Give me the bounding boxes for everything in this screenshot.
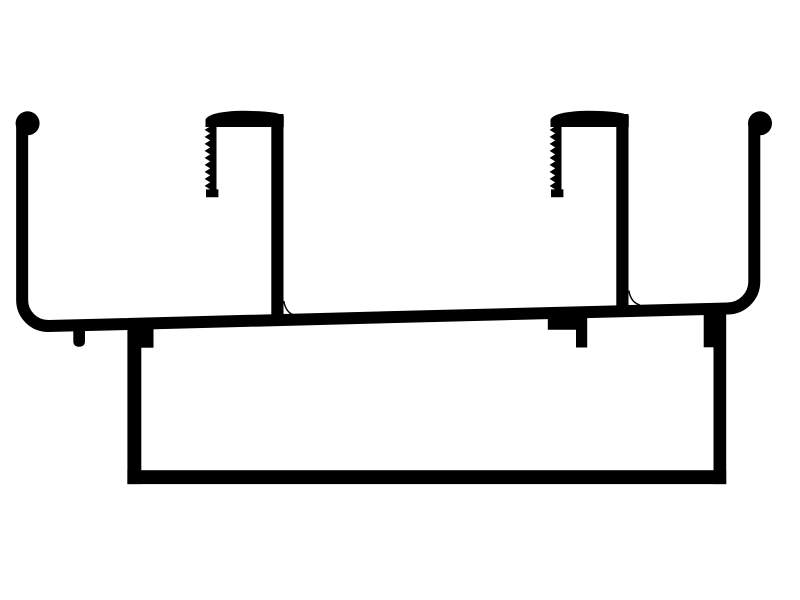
hook 1 serrated strip — [205, 126, 219, 197]
hook 2 serrated strip — [550, 126, 564, 197]
fillet hairline at hook 1 bar junction — [284, 301, 295, 315]
box left inner notch — [140, 322, 154, 348]
hook 1 (left serrated snap leg) — [205, 111, 284, 324]
right end bead — [748, 111, 772, 135]
hook 1 bar — [271, 114, 283, 324]
box right wall — [714, 310, 727, 484]
box right inner notch — [704, 310, 716, 347]
box left wall — [127, 319, 141, 485]
hook 2 cap — [551, 111, 629, 127]
left end bead — [16, 111, 40, 135]
outer profile wall (left wall, bottom slant web, right wall) — [22, 123, 754, 326]
drip tab under left bottom flange — [73, 328, 85, 347]
fillet hairline at hook 2 bar junction — [629, 291, 640, 306]
hook 1 cap — [206, 111, 284, 127]
middle step notch under hook 2 strip — [548, 314, 587, 348]
hook 2 (right serrated snap leg) — [550, 111, 629, 312]
box bottom wall — [127, 470, 726, 484]
hook 2 bar — [616, 114, 628, 312]
